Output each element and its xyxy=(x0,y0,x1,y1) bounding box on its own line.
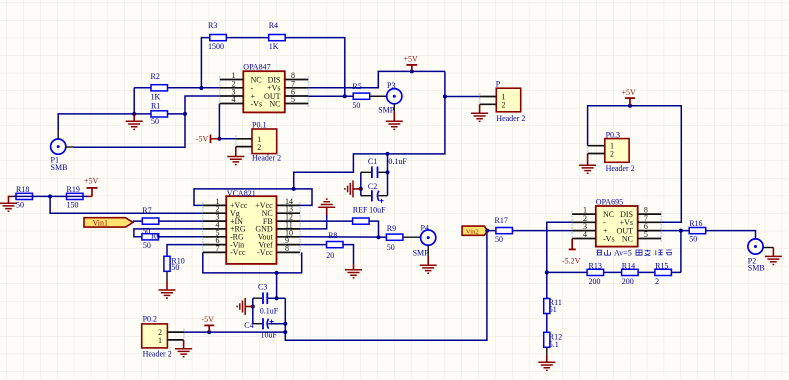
wire +input row xyxy=(488,230,573,232)
wire +RG row with drop xyxy=(134,229,203,237)
resistor R4 xyxy=(269,21,286,51)
header P0.2 xyxy=(142,314,184,358)
resistor 20 (Vref term) xyxy=(326,242,343,260)
wire OPA847 +Vs to +5V xyxy=(308,71,445,87)
ground P3 xyxy=(386,111,403,129)
ground header P pin2 xyxy=(471,104,488,121)
resistor R11 xyxy=(544,298,562,314)
svg-text:NC: NC xyxy=(269,99,280,108)
svg-text:10uF: 10uF xyxy=(369,206,386,215)
wire R18-R19 row xyxy=(12,195,88,197)
svg-text:150: 150 xyxy=(67,201,79,210)
svg-text:5.1: 5.1 xyxy=(549,340,559,349)
svg-text:C2: C2 xyxy=(368,182,377,191)
wire R3/R4 feedback top rail xyxy=(201,38,344,97)
svg-text:50: 50 xyxy=(387,243,395,252)
resistor R17 xyxy=(495,216,513,244)
svg-text:1500: 1500 xyxy=(208,42,224,51)
svg-text:C3: C3 xyxy=(258,282,267,291)
svg-text:1: 1 xyxy=(158,336,162,345)
svg-text:-Vs: -Vs xyxy=(251,99,263,108)
op-amp U1 OPA847 xyxy=(220,63,309,113)
node OUT feedback junction xyxy=(343,94,347,98)
svg-text:R14: R14 xyxy=(622,261,635,270)
wire P0.2 pin2 to -5V rail xyxy=(184,331,285,333)
svg-text:SMP: SMP xyxy=(378,106,395,115)
svg-text:SMP: SMP xyxy=(413,248,430,257)
resistor R8 xyxy=(328,218,369,240)
connector P4 SMP xyxy=(413,224,436,258)
resistor R10 xyxy=(164,256,185,272)
svg-text:20: 20 xyxy=(326,251,334,260)
svg-text:0.1uF: 0.1uF xyxy=(388,157,407,166)
svg-text:+5V: +5V xyxy=(404,55,419,64)
ground P0.1 pin2 xyxy=(227,147,244,165)
svg-text:Header 2: Header 2 xyxy=(606,164,635,173)
node -Vcc cap tap xyxy=(275,271,279,275)
svg-text:0.1uF: 0.1uF xyxy=(260,306,279,315)
ground P0.2 pin1 xyxy=(175,340,192,357)
wire +Vs riser to +5V xyxy=(588,106,682,223)
text gain note (hanzi imitation) xyxy=(597,249,673,258)
wire +5V rail down right xyxy=(294,71,445,188)
svg-text:R4: R4 xyxy=(269,21,278,30)
ic U2 VCA821 xyxy=(203,189,300,264)
node -5V junction xyxy=(217,137,221,141)
resistor R13 xyxy=(587,261,604,286)
svg-text:Header 2: Header 2 xyxy=(496,114,525,123)
power -5.2V at -Vs xyxy=(562,239,581,266)
node R1 right junction xyxy=(183,112,187,116)
svg-text:-5V: -5V xyxy=(196,135,209,144)
svg-text:-Vcc: -Vcc xyxy=(257,248,273,257)
svg-text:50: 50 xyxy=(495,235,503,244)
wire cap right rail xyxy=(387,154,389,196)
svg-text:VCA821: VCA821 xyxy=(227,189,256,198)
wire -Vcc down to C3 xyxy=(276,273,278,298)
node C3 row junction xyxy=(275,296,279,300)
pin hotspot dots xyxy=(183,76,662,343)
wire Vg long run xyxy=(50,196,203,213)
svg-text:50: 50 xyxy=(352,101,360,110)
ground at 20ohm xyxy=(345,264,362,278)
wire R13 chain row xyxy=(547,271,681,273)
svg-text:1K: 1K xyxy=(151,93,161,102)
resistor R19 xyxy=(67,185,84,210)
port Vin2 xyxy=(462,226,488,236)
wire C3C4 left rail xyxy=(252,298,254,324)
header P0.1 xyxy=(236,121,281,163)
wire 20ohm to ground xyxy=(343,245,354,264)
svg-text:P0.3: P0.3 xyxy=(606,131,620,140)
node OUT feedback junction xyxy=(679,229,683,233)
svg-text:R19: R19 xyxy=(67,185,80,194)
svg-text:P0.2: P0.2 xyxy=(143,314,157,323)
power +5V at P0.3 xyxy=(622,88,637,108)
svg-text:R15: R15 xyxy=(655,261,668,270)
svg-text:2: 2 xyxy=(655,277,659,286)
svg-text:Header 2: Header 2 xyxy=(252,154,281,163)
svg-text:50: 50 xyxy=(689,234,697,243)
svg-text:R13: R13 xyxy=(589,261,602,270)
wire Vref row to 20ohm xyxy=(300,244,326,246)
svg-text:C1: C1 xyxy=(368,157,377,166)
svg-text:Header 2: Header 2 xyxy=(143,350,172,359)
wire OUT row to R16 xyxy=(661,230,689,232)
svg-text:R18: R18 xyxy=(16,185,29,194)
svg-text:+5V: +5V xyxy=(622,88,637,97)
wire feedback riser to OUT xyxy=(680,231,682,273)
svg-text:2: 2 xyxy=(502,101,506,110)
node ground junction xyxy=(132,112,136,116)
svg-text:P0.1: P0.1 xyxy=(252,121,266,130)
resistor R9 xyxy=(386,224,403,252)
header P0.3 xyxy=(588,131,635,174)
node cap rail top xyxy=(386,152,390,156)
svg-text:SMB: SMB xyxy=(51,163,68,172)
ground rotated at C1/C2 xyxy=(345,180,361,197)
svg-text:P3: P3 xyxy=(387,81,395,90)
svg-text:200: 200 xyxy=(589,277,601,286)
svg-text:NC: NC xyxy=(622,234,633,243)
wire +IN row xyxy=(133,220,203,222)
resistor R16 xyxy=(689,219,706,244)
connector P2 SMB xyxy=(748,239,774,273)
resistor R3 xyxy=(208,21,226,51)
svg-text:4: 4 xyxy=(583,230,587,239)
svg-text:R3: R3 xyxy=(208,21,217,30)
svg-text:Vin1: Vin1 xyxy=(93,218,109,227)
connector P1 SMB xyxy=(51,130,74,172)
wire -input to R13 chain xyxy=(547,222,572,298)
resistor R2 xyxy=(151,72,168,102)
ground R11R12 xyxy=(538,347,555,370)
wire cap left rail xyxy=(360,172,362,195)
wire R9 to P4 xyxy=(403,236,421,238)
header P xyxy=(480,80,526,123)
power +5V above P3 xyxy=(404,55,419,74)
svg-text:R1: R1 xyxy=(151,102,160,111)
svg-text:50: 50 xyxy=(16,201,24,210)
node junction R3 tap xyxy=(199,86,203,90)
wire FB row to R8 xyxy=(300,220,353,222)
svg-text:Av=5: Av=5 xyxy=(614,249,632,258)
svg-text:R17: R17 xyxy=(495,216,508,225)
wire inverted gnd to GND pin xyxy=(300,215,327,229)
resistor R12 xyxy=(544,332,562,349)
ground rotated at C3C4 xyxy=(237,298,253,315)
node Vg tap xyxy=(48,194,52,198)
wire -Vin to R10 xyxy=(167,245,203,257)
port Vin1 xyxy=(84,218,133,228)
svg-text:R7: R7 xyxy=(142,206,151,215)
node C4 right xyxy=(283,322,287,326)
svg-text:50: 50 xyxy=(171,263,179,272)
svg-text:1K: 1K xyxy=(269,42,279,51)
svg-text:50: 50 xyxy=(143,241,151,250)
wire R8 to Vout node xyxy=(369,221,378,237)
svg-text:-5.2V: -5.2V xyxy=(562,256,581,265)
svg-text:OPA695: OPA695 xyxy=(596,197,623,206)
svg-text:P4: P4 xyxy=(421,224,429,233)
svg-text:7: 7 xyxy=(216,244,220,253)
wire Vout row xyxy=(300,236,386,238)
ground R10 xyxy=(159,271,176,298)
wire P1 shield row xyxy=(58,114,134,130)
svg-text:2: 2 xyxy=(257,143,261,152)
svg-text:R5: R5 xyxy=(352,82,361,91)
ground R18 left xyxy=(0,196,17,211)
svg-text:5: 5 xyxy=(644,230,648,239)
node -5V wire junction xyxy=(283,330,287,334)
svg-text:200: 200 xyxy=(622,277,634,286)
svg-text:REF: REF xyxy=(353,206,368,215)
node cap ground junction xyxy=(359,187,363,191)
node C1 right xyxy=(386,170,390,174)
ground at R1/R2 node xyxy=(126,114,143,130)
wire R11 leg xyxy=(546,299,548,333)
svg-text:5: 5 xyxy=(291,95,295,104)
ground P0.3 pin2 xyxy=(579,154,596,174)
power +5V at R19 xyxy=(84,177,99,197)
svg-text:51: 51 xyxy=(549,305,557,314)
resistor R14 xyxy=(622,261,639,286)
op-amp U3 OPA695 xyxy=(572,197,661,246)
resistor R15 xyxy=(655,261,672,286)
capacitor C4 polarized xyxy=(244,318,285,339)
ground P4 xyxy=(420,257,437,274)
svg-text:+5V: +5V xyxy=(84,177,99,186)
svg-text:50: 50 xyxy=(151,117,159,126)
ground P2 xyxy=(765,248,782,265)
svg-text:P: P xyxy=(496,80,501,89)
svg-text:-Vs: -Vs xyxy=(603,234,615,243)
capacitor C3 xyxy=(253,282,285,315)
node Vout feedback junction xyxy=(377,235,381,239)
svg-text:2: 2 xyxy=(610,150,614,159)
wire R1 row xyxy=(134,113,185,115)
power -5V at P0.2 xyxy=(202,315,215,334)
svg-text:-Vcc: -Vcc xyxy=(230,248,246,257)
wire pin2 row xyxy=(134,87,220,89)
wire OUT row to R5/P3 xyxy=(308,95,386,97)
node P header tap xyxy=(443,95,447,99)
svg-text:R2: R2 xyxy=(151,72,160,81)
wire P1 signal to pin3 xyxy=(74,96,220,147)
svg-text:OPA847: OPA847 xyxy=(243,63,270,72)
wire R16 to P2 xyxy=(706,231,756,239)
wire to header P xyxy=(445,96,480,98)
svg-text:R6: R6 xyxy=(151,232,160,241)
svg-text:R16: R16 xyxy=(689,219,702,228)
svg-text:8: 8 xyxy=(285,244,289,253)
connector P3 SMP xyxy=(378,81,402,115)
resistor R6 xyxy=(142,232,160,250)
svg-text:SMB: SMB xyxy=(748,263,765,272)
resistor R5 xyxy=(352,82,369,110)
ground inverted above FB xyxy=(318,199,335,215)
node +5V feed on loop xyxy=(292,187,296,191)
svg-text:R9: R9 xyxy=(387,224,396,233)
wire -Vcc loop under IC xyxy=(203,252,302,273)
node R13 chain junction xyxy=(545,270,549,274)
resistor R7 xyxy=(142,218,159,235)
capacitor C1 xyxy=(361,157,408,178)
power -5V bar xyxy=(196,135,220,144)
svg-text:Vin2: Vin2 xyxy=(466,229,479,236)
capacitor C2 polarized xyxy=(353,182,388,215)
wire C3C4 right rail down xyxy=(285,231,487,341)
wire +Vcc top loop xyxy=(194,189,312,206)
resistor R18 xyxy=(16,185,33,210)
resistor R1 xyxy=(151,102,168,127)
node Vin2 junction xyxy=(485,229,489,233)
svg-text:R8: R8 xyxy=(328,231,337,240)
node C3C4 ground junction xyxy=(251,305,255,309)
svg-text:4: 4 xyxy=(232,95,236,104)
wire R2 left drop to ground node xyxy=(133,88,135,114)
wire -5V to pin4 xyxy=(219,104,235,139)
svg-text:-5V: -5V xyxy=(202,315,215,324)
